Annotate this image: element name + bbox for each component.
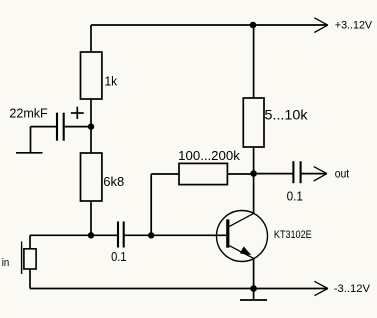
svg-text:22mkF: 22mkF — [9, 105, 47, 120]
svg-text:in: in — [2, 257, 10, 269]
svg-text:+3..12V: +3..12V — [335, 19, 373, 31]
svg-text:100...200k: 100...200k — [178, 148, 240, 163]
svg-text:-3..12V: -3..12V — [334, 283, 371, 295]
svg-text:0.1: 0.1 — [287, 188, 303, 203]
svg-text:6k8: 6k8 — [103, 174, 124, 189]
svg-text:0.1: 0.1 — [111, 249, 126, 264]
svg-text:KT3102E: KT3102E — [274, 229, 312, 241]
svg-text:5...10k: 5...10k — [265, 107, 308, 122]
svg-text:1k: 1k — [105, 73, 118, 88]
svg-text:out: out — [335, 167, 350, 181]
